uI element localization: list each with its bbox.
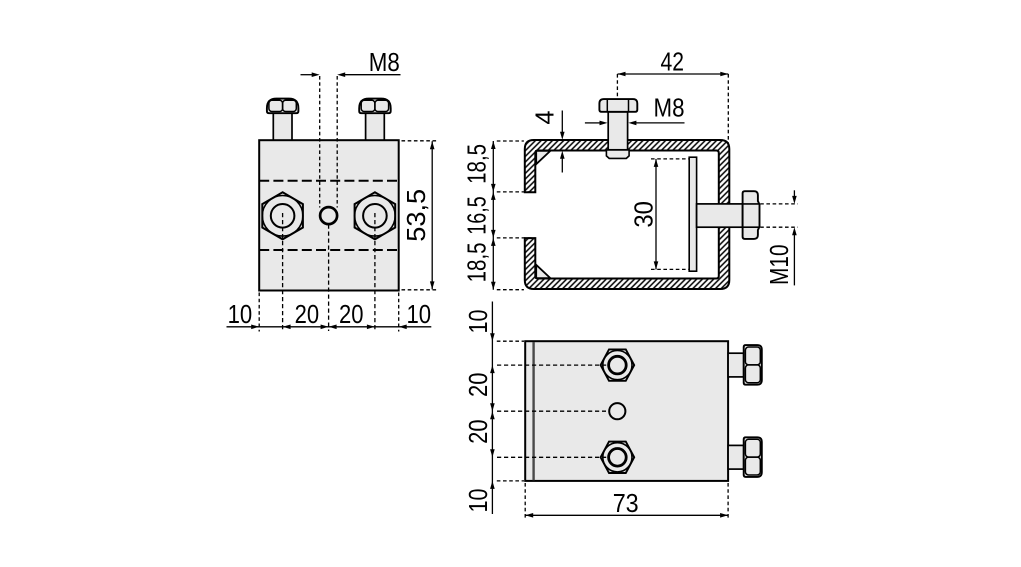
- nut N3 hexagon: [601, 349, 635, 380]
- dimension 4 upper arrow: [561, 111, 563, 136]
- bolt B6 shaft (bottom right): [728, 445, 744, 469]
- svg-text:4: 4: [531, 110, 559, 124]
- dimension 73 extension left: [524, 483, 526, 520]
- nut N2 inscribed circle: [355, 196, 396, 237]
- M10 extension line lower: [760, 226, 798, 228]
- extension line 18,5 top: [497, 140, 524, 142]
- svg-text:20: 20: [295, 301, 320, 329]
- dimension M8 (section) leader right: [634, 122, 684, 124]
- bottom chain dimension line: [227, 326, 432, 328]
- left chain dimension line (10/20/20/10): [491, 302, 493, 515]
- bolt B5 shaft (top right): [728, 353, 744, 377]
- extension line lip upper: [497, 191, 535, 193]
- M10 extension line upper: [760, 203, 798, 205]
- extension line 18,5 bottom: [497, 289, 524, 291]
- M8 hole extension line right: [336, 76, 338, 208]
- svg-text:10: 10: [407, 301, 432, 329]
- centerline center hole: [497, 410, 606, 412]
- center hole (bottom view): [609, 403, 625, 419]
- hidden edge line lower: [259, 249, 399, 251]
- dimension 30 line: [655, 159, 657, 270]
- dimension 53,5 extension top: [402, 140, 439, 142]
- dimension 42 extension right: [727, 74, 729, 144]
- nut N4 hole ring: [609, 449, 627, 467]
- bolt B3 (M8) shaft through wall: [608, 112, 627, 150]
- bolt B2 shaft (right top bolt): [366, 113, 385, 141]
- bolt B1 shaft (left top bolt): [273, 113, 292, 141]
- extension body bottom: [497, 480, 524, 482]
- centerline nut N1: [282, 213, 284, 331]
- front view body: [259, 140, 399, 290]
- dimension M10 lower arrow: [793, 232, 795, 285]
- clamp plate inside channel: [689, 157, 696, 271]
- dimension 73 extension right: [727, 483, 729, 520]
- bottom chain extension right edge: [398, 293, 400, 332]
- nut N3 hole ring: [609, 356, 627, 374]
- dimension 30 extension bottom: [651, 268, 689, 270]
- bolt B1 head: [267, 99, 299, 114]
- dimension 53,5 extension bottom: [402, 289, 439, 291]
- svg-text:20: 20: [465, 372, 493, 397]
- svg-text:10: 10: [228, 301, 253, 329]
- svg-text:M8: M8: [369, 49, 400, 77]
- M8 hole extension line left: [319, 76, 321, 208]
- bolt B4 head: [743, 191, 760, 239]
- nut N2 hexagon: [355, 192, 396, 239]
- nut N4 outer circle: [603, 443, 632, 472]
- nut N3 outer circle: [603, 351, 632, 380]
- svg-text:53,5: 53,5: [403, 189, 431, 242]
- bottom chain extension left edge: [258, 293, 260, 332]
- svg-text:73: 73: [613, 490, 639, 518]
- dimension M8 (front) leader left: [301, 74, 314, 76]
- svg-text:18,5: 18,5: [463, 242, 491, 282]
- svg-text:42: 42: [661, 49, 685, 77]
- bottom view body: [525, 341, 728, 481]
- plate edge line: [532, 342, 534, 480]
- centerline nut N2: [374, 213, 376, 331]
- corner fillet bottom-left: [536, 265, 550, 278]
- svg-text:16,5: 16,5: [463, 196, 491, 235]
- centerline nut N4: [497, 456, 608, 458]
- nut N1 hexagon: [262, 192, 303, 239]
- center hole: [320, 207, 337, 224]
- svg-text:10: 10: [465, 489, 493, 513]
- svg-text:20: 20: [465, 419, 493, 444]
- nut N2 hole circle: [363, 204, 387, 228]
- dimension M8 (front) leader right: [343, 74, 401, 76]
- bolt B6 head: [744, 437, 762, 477]
- bolt B2 head: [359, 99, 391, 114]
- nut N1 hole circle: [271, 204, 295, 228]
- nut N4 hexagon: [601, 442, 635, 473]
- bolt B3 tip below wall: [606, 150, 629, 159]
- left chain dimension line (18,5/16,5/18,5): [492, 141, 494, 290]
- dimension 30 extension top: [651, 158, 689, 160]
- dimension M10 upper arrow: [793, 190, 795, 199]
- dimension 4 lower arrow: [561, 155, 563, 173]
- svg-text:30: 30: [631, 201, 659, 228]
- nut N1 inscribed circle: [262, 196, 303, 237]
- corner fillet top-left: [536, 151, 550, 164]
- svg-text:M8: M8: [654, 94, 685, 122]
- dimension 42 extension left (bolt centerline): [616, 74, 618, 99]
- dimension M8 (section) leader left: [585, 122, 601, 124]
- svg-text:M10: M10: [766, 244, 794, 285]
- extension body top: [497, 340, 524, 342]
- hidden edge line upper: [259, 180, 399, 182]
- dimension 73 line: [525, 514, 728, 516]
- dimension 42 line: [618, 73, 729, 75]
- dimension 53,5 line: [431, 141, 433, 289]
- svg-text:10: 10: [465, 310, 493, 334]
- svg-text:18,5: 18,5: [463, 144, 491, 184]
- centerline below center hole: [328, 225, 330, 332]
- bolt B3 head: [599, 99, 637, 112]
- svg-text:20: 20: [339, 301, 364, 329]
- bolt B5 head: [744, 345, 762, 385]
- centerline nut N3: [497, 364, 608, 366]
- bolt B4 (M10) shaft through wall: [697, 204, 743, 227]
- extension line lip lower: [497, 237, 535, 239]
